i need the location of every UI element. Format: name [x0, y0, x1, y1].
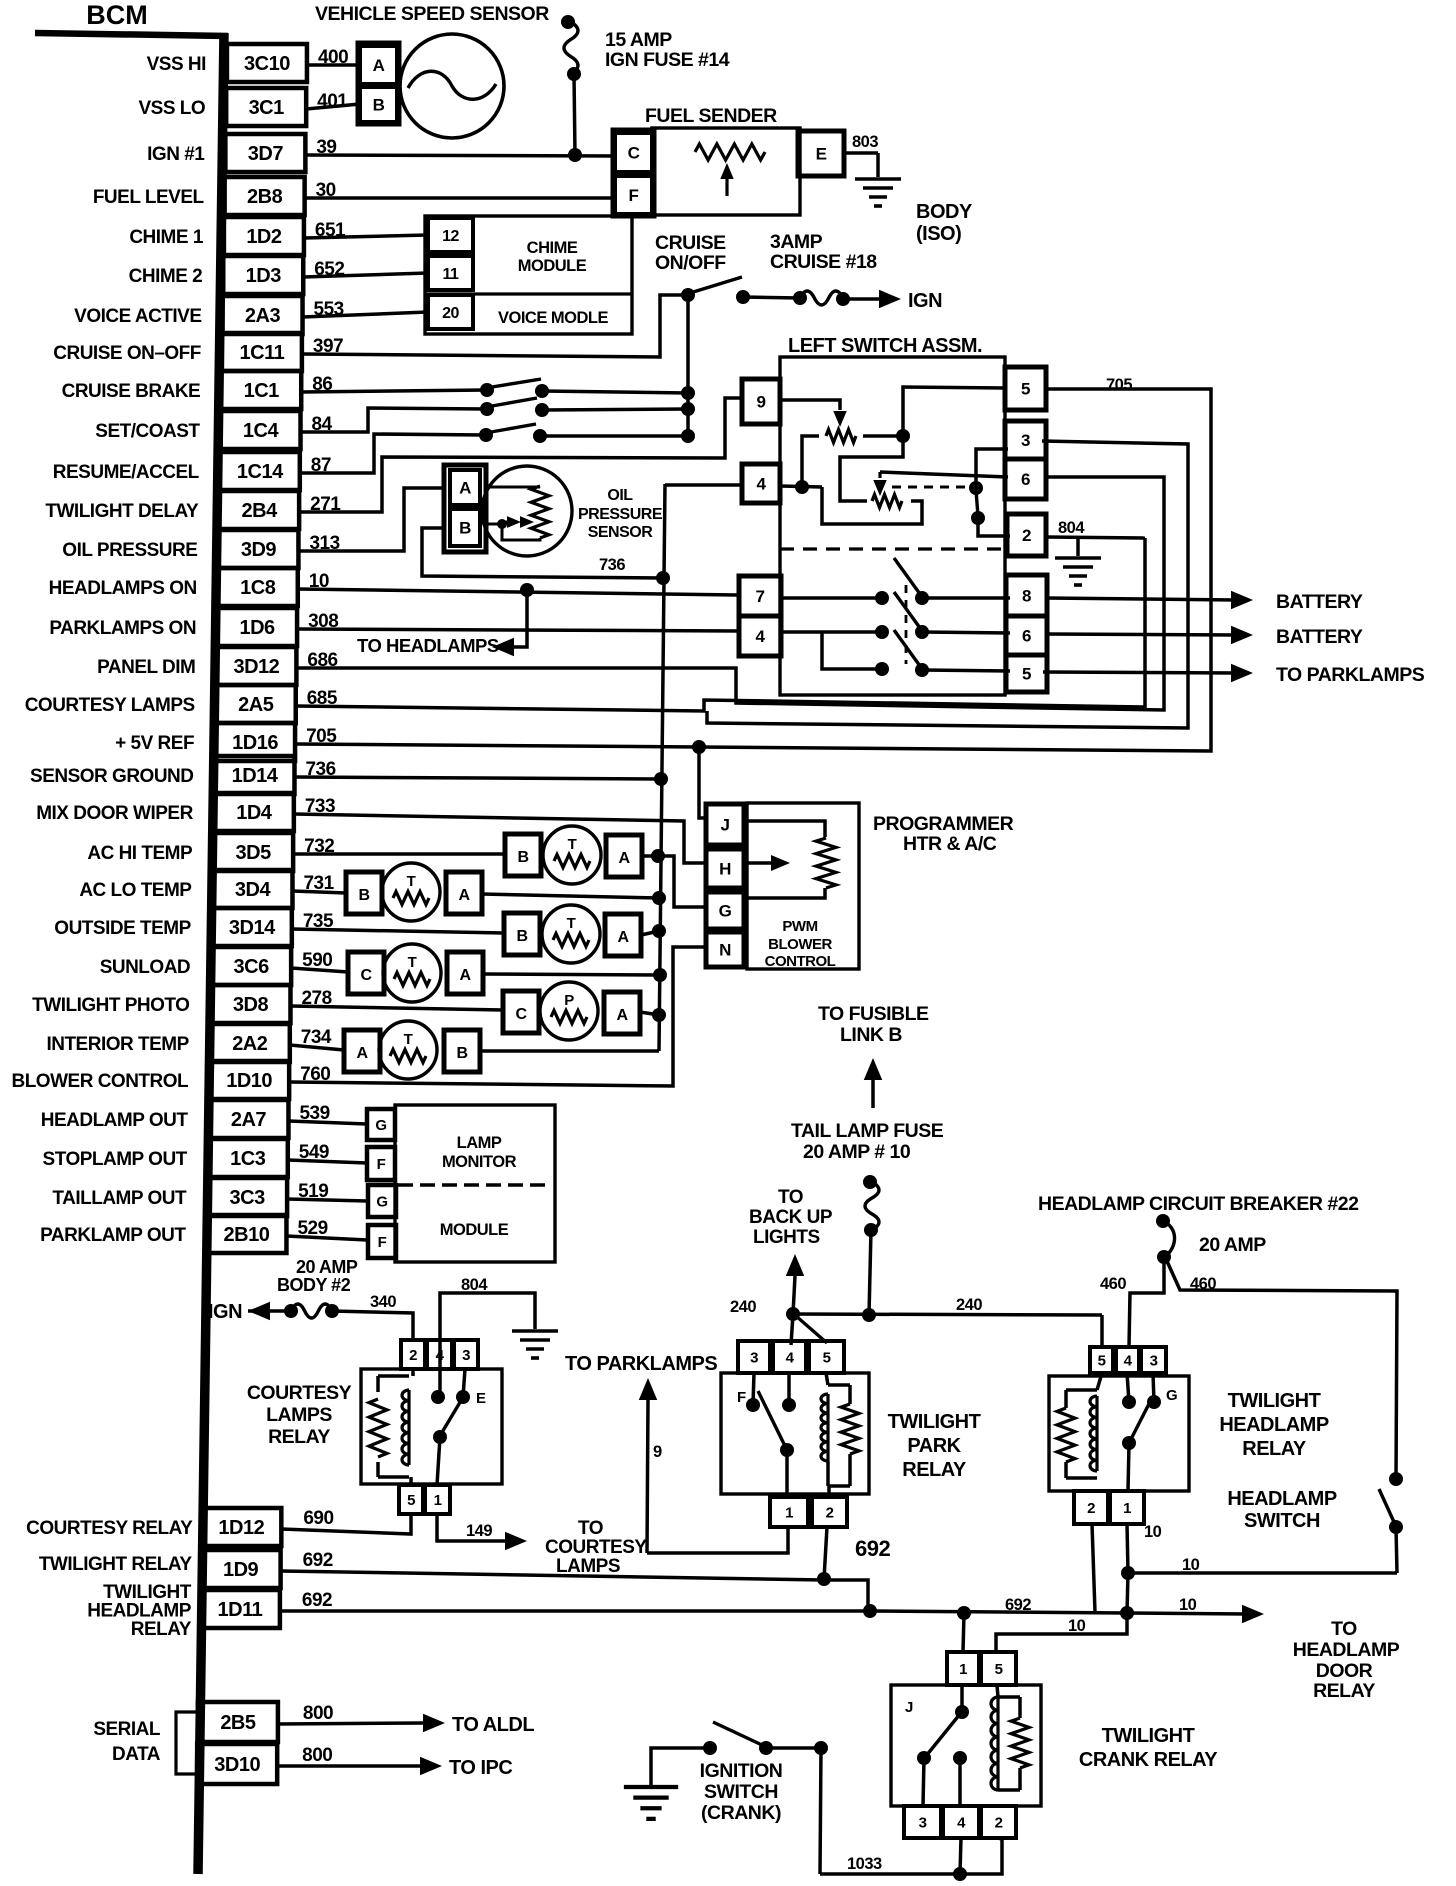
to park relay pin 1 — [647, 1527, 788, 1553]
outside temp sensor — [504, 913, 540, 955]
BCM pin 3D8 (TWILIGHT PHOTO) — [210, 985, 290, 1023]
svg-text:C: C — [515, 1006, 527, 1023]
BCM pin 3D9 (OIL PRESSURE) — [218, 530, 298, 568]
svg-text:J: J — [905, 1699, 913, 1716]
pin 4 internal line — [780, 486, 822, 487]
wire 39 — [305, 155, 617, 156]
svg-text:BODY #2: BODY #2 — [277, 1275, 351, 1295]
svg-text:1: 1 — [785, 1504, 793, 1521]
svg-text:INTERIOR TEMP: INTERIOR TEMP — [46, 1034, 189, 1055]
pin4 to contact — [780, 630, 882, 634]
svg-text:A: A — [458, 887, 470, 904]
svg-text:IGNITION: IGNITION — [700, 1760, 783, 1782]
svg-text:RELAY: RELAY — [1242, 1438, 1307, 1460]
svg-text:SET/COAST: SET/COAST — [95, 421, 200, 442]
wire 685 — [296, 538, 1145, 711]
svg-text:692: 692 — [855, 1536, 890, 1561]
240 to twilight headlamp relay pin 5 — [1100, 1315, 1104, 1347]
wire 800 to ALDL — [278, 1723, 425, 1724]
BCM pin 1D11 — [200, 1590, 280, 1628]
svg-text:800: 800 — [303, 1703, 333, 1724]
oil sensor B to 736 bus — [422, 528, 663, 578]
wire 86 + cruise brake switch — [301, 390, 487, 392]
pin F — [367, 1147, 395, 1180]
svg-text:3D14: 3D14 — [229, 917, 276, 939]
crank relay resistor — [1011, 1718, 1029, 1768]
oil pressure sensor pins A/B — [444, 465, 486, 552]
svg-text:T: T — [407, 873, 416, 890]
svg-text:CHIME 2: CHIME 2 — [129, 266, 203, 287]
svg-text:TO IPC: TO IPC — [449, 1757, 512, 1779]
wire 734 — [290, 1045, 344, 1050]
svg-text:VOICE MODLE: VOICE MODLE — [498, 309, 609, 327]
svg-text:803: 803 — [852, 133, 878, 151]
svg-text:1D2: 1D2 — [246, 226, 282, 248]
headlamp relay resistor — [1057, 1408, 1075, 1462]
pin G — [706, 892, 744, 929]
pin5 to coil — [997, 1685, 998, 1697]
pin 3 wire — [707, 441, 1188, 728]
svg-text:PARKLAMPS ON: PARKLAMPS ON — [49, 618, 196, 639]
svg-text:F: F — [629, 186, 639, 205]
svg-text:1: 1 — [1123, 1500, 1131, 1517]
BCM pin 1D9 — [201, 1550, 281, 1588]
AC HI temp sensor — [505, 834, 541, 876]
BCM pin 3D10 (serial data) — [197, 1744, 277, 1784]
to programmer G — [658, 856, 708, 907]
svg-text:10: 10 — [1182, 1556, 1200, 1574]
svg-text:F: F — [737, 1389, 746, 1406]
pin4 stem — [438, 1341, 442, 1397]
wire 735 — [292, 929, 504, 933]
svg-text:T: T — [568, 836, 577, 853]
svg-text:340: 340 — [370, 1293, 396, 1311]
wire 692 from 1D11 — [280, 1609, 870, 1613]
wiper to pin 6 — [880, 472, 1008, 477]
svg-text:CRUISE ON–OFF: CRUISE ON–OFF — [53, 343, 201, 364]
contact to pin3 — [923, 1758, 924, 1806]
svg-text:B: B — [358, 887, 369, 904]
svg-text:692: 692 — [302, 1590, 332, 1611]
svg-text:11: 11 — [443, 266, 460, 283]
pin H — [706, 849, 744, 888]
svg-text:IGN #1: IGN #1 — [147, 144, 205, 165]
svg-text:2: 2 — [826, 1504, 834, 1521]
wire 271 (twilight delay to pin 9) — [299, 398, 742, 512]
BCM pin 1C3 (STOPLAMP OUT) — [208, 1139, 288, 1177]
wire 308 (parklamps on) — [297, 629, 739, 631]
pot to pin 5 — [903, 387, 1005, 436]
svg-text:SENSOR GROUND: SENSOR GROUND — [30, 766, 193, 787]
svg-text:692: 692 — [303, 1550, 333, 1571]
wire 686 — [296, 477, 1164, 710]
svg-text:1D11: 1D11 — [218, 1599, 263, 1621]
svg-text:J: J — [721, 816, 730, 835]
svg-text:TWILIGHT PHOTO: TWILIGHT PHOTO — [32, 995, 189, 1016]
svg-text:ON/OFF: ON/OFF — [655, 252, 726, 274]
svg-text:PARK: PARK — [907, 1435, 961, 1457]
svg-text:A: A — [356, 1045, 368, 1062]
svg-text:HEADLAMP: HEADLAMP — [1293, 1639, 1400, 1661]
coil to pin5 — [409, 1477, 413, 1485]
pin4 stem — [1127, 1373, 1129, 1402]
svg-text:VOICE ACTIVE: VOICE ACTIVE — [74, 306, 201, 327]
pin N — [706, 932, 744, 967]
svg-text:3D5: 3D5 — [236, 842, 272, 864]
svg-text:2B8: 2B8 — [247, 186, 283, 208]
svg-text:TAILLAMP OUT: TAILLAMP OUT — [52, 1188, 187, 1209]
wire 690 — [281, 1514, 411, 1534]
svg-text:1C4: 1C4 — [243, 420, 280, 442]
BCM pin 1C14 (RESUME/ACCEL) — [220, 452, 300, 490]
programmer wiper arrow — [744, 861, 772, 865]
svg-text:1D9: 1D9 — [223, 1559, 259, 1581]
svg-text:10: 10 — [1068, 1617, 1086, 1635]
svg-text:BATTERY: BATTERY — [1276, 626, 1363, 648]
pin3 stem — [463, 1369, 465, 1397]
svg-text:IGN: IGN — [908, 290, 942, 312]
svg-text:AC HI TEMP: AC HI TEMP — [87, 843, 193, 864]
svg-text:DATA: DATA — [112, 1744, 161, 1765]
svg-text:A: A — [373, 56, 385, 75]
svg-text:PARKLAMP OUT: PARKLAMP OUT — [40, 1225, 186, 1246]
svg-text:3D10: 3D10 — [214, 1754, 260, 1776]
wire 736 — [294, 777, 661, 779]
wire 10 arrow line — [1127, 1613, 1247, 1614]
contact to pin6 — [922, 632, 1010, 633]
svg-text:SERIAL: SERIAL — [93, 1719, 161, 1740]
BCM pin 1C11 (CRUISE ON–OFF) — [222, 333, 302, 371]
svg-text:DOOR: DOOR — [1316, 1660, 1373, 1682]
wire 84 + set/coast switch — [301, 408, 487, 432]
10 down — [1127, 1573, 1128, 1613]
BCM pin 3C3 (TAILLAMP OUT) — [207, 1178, 287, 1216]
BCM pin 3D5 (AC HI TEMP) — [213, 833, 293, 871]
svg-text:HTR & A/C: HTR & A/C — [903, 833, 997, 855]
relay resistor — [376, 1376, 380, 1392]
svg-text:RELAY: RELAY — [1313, 1680, 1375, 1702]
courtesy lamps relay box — [361, 1369, 502, 1484]
svg-text:SUNLOAD: SUNLOAD — [100, 957, 190, 978]
svg-text:+ 5V REF: + 5V REF — [115, 733, 194, 754]
svg-text:1D3: 1D3 — [246, 265, 282, 287]
svg-text:B: B — [517, 849, 528, 866]
svg-text:3D9: 3D9 — [241, 539, 277, 561]
fuel sender wiper arrow — [725, 175, 728, 196]
705 branch to pin J — [699, 747, 708, 818]
BCM pin 3C10 (VSS HI) — [227, 44, 307, 82]
svg-text:705: 705 — [1106, 376, 1132, 394]
240 to park relay pin 4 — [791, 1314, 793, 1345]
svg-text:3C6: 3C6 — [234, 956, 270, 978]
oil sensor wiper — [486, 523, 502, 526]
svg-text:TWILIGHT RELAY: TWILIGHT RELAY — [39, 1554, 193, 1575]
svg-text:B: B — [456, 1045, 467, 1062]
svg-text:3C3: 3C3 — [230, 1187, 266, 1209]
fuel sender pins C/F — [613, 130, 654, 216]
BCM pin 2A7 (HEADLAMP OUT) — [208, 1100, 288, 1138]
svg-text:9: 9 — [757, 393, 766, 412]
pin J — [706, 804, 744, 845]
wire 10 from headlamp relay pin 1 — [1127, 1524, 1128, 1573]
twilight delay pot — [780, 400, 840, 410]
svg-text:B: B — [516, 928, 527, 945]
svg-text:CRUISE #18: CRUISE #18 — [770, 251, 877, 273]
svg-text:800: 800 — [302, 1745, 332, 1766]
relay contacts — [431, 1390, 445, 1404]
wire 240 — [786, 1307, 800, 1321]
pin3 stem — [1153, 1373, 1154, 1402]
svg-text:G: G — [719, 902, 732, 921]
svg-text:CHIME 1: CHIME 1 — [129, 227, 204, 248]
wire 804 to ground — [440, 1293, 535, 1341]
wire 803 — [844, 151, 878, 155]
svg-text:H: H — [719, 860, 731, 879]
svg-text:G: G — [375, 1117, 386, 1134]
dashed section divider — [780, 547, 1005, 550]
svg-text:1: 1 — [959, 1661, 967, 1678]
svg-text:5: 5 — [1021, 380, 1030, 399]
panel dimmer pot — [840, 436, 903, 501]
BCM pin 1D3 (CHIME 2) — [223, 256, 303, 294]
15 AMP IGN fuse #14 — [561, 15, 575, 29]
crank relay coil — [991, 1697, 998, 1790]
svg-text:VEHICLE SPEED SENSOR: VEHICLE SPEED SENSOR — [315, 3, 549, 25]
twilight crank relay pins 1,5 — [947, 1652, 979, 1685]
twilight park relay box — [721, 1373, 869, 1494]
svg-text:BLOWER CONTROL: BLOWER CONTROL — [11, 1071, 189, 1092]
junction 705/programmer — [692, 740, 706, 754]
svg-text:COURTESY LAMPS: COURTESY LAMPS — [25, 695, 195, 716]
BCM pin 1C1 (CRUISE BRAKE) — [221, 371, 301, 409]
BCM pin 1D6 (PARKLAMPS ON) — [217, 608, 297, 646]
svg-text:2: 2 — [409, 1347, 417, 1364]
svg-text:PANEL DIM: PANEL DIM — [97, 657, 195, 678]
park relay pin2 to 692 — [824, 1527, 827, 1579]
wire 400 — [307, 63, 360, 67]
svg-text:1C8: 1C8 — [240, 577, 276, 599]
pin F — [368, 1225, 396, 1258]
svg-text:TO: TO — [778, 1187, 803, 1208]
svg-text:8: 8 — [1022, 587, 1031, 606]
svg-text:COURTESY RELAY: COURTESY RELAY — [26, 1518, 193, 1539]
sunload sensor — [348, 952, 384, 994]
BCM pin 3D12 (PANEL DIM) — [216, 647, 296, 685]
svg-text:3C10: 3C10 — [244, 53, 290, 75]
svg-text:LAMPS: LAMPS — [266, 1404, 332, 1426]
svg-text:F: F — [377, 1156, 386, 1173]
svg-text:20: 20 — [442, 305, 459, 322]
svg-text:TO: TO — [1331, 1618, 1357, 1640]
svg-text:20 AMP # 10: 20 AMP # 10 — [803, 1141, 911, 1163]
svg-text:1D6: 1D6 — [239, 617, 275, 639]
wire 340 — [332, 1311, 413, 1341]
svg-text:10: 10 — [1179, 1596, 1197, 1614]
svg-text:MODULE: MODULE — [518, 257, 587, 275]
pin3 stem — [753, 1373, 754, 1405]
svg-text:TAIL LAMP FUSE: TAIL LAMP FUSE — [791, 1120, 944, 1142]
svg-text:A: A — [618, 850, 630, 867]
wire 30 — [305, 196, 617, 200]
svg-text:460: 460 — [1100, 1275, 1126, 1293]
svg-text:N: N — [719, 941, 731, 960]
svg-text:4: 4 — [756, 627, 766, 646]
svg-text:5: 5 — [1022, 665, 1031, 684]
svg-text:TO PARKLAMPS: TO PARKLAMPS — [1276, 664, 1425, 686]
BCM pin 2B4 (TWILIGHT DELAY) — [219, 491, 299, 529]
BCM pin 3D7 (IGN #1) — [225, 134, 305, 172]
svg-text:CRUISE: CRUISE — [655, 232, 726, 254]
svg-text:149: 149 — [466, 1522, 492, 1540]
wire 553 — [303, 312, 428, 317]
svg-text:20 AMP: 20 AMP — [296, 1257, 358, 1277]
tail lamp fuse 20A #10 — [863, 1175, 877, 1189]
svg-text:A: A — [459, 967, 471, 984]
svg-text:PWM: PWM — [782, 918, 817, 935]
svg-text:BCM: BCM — [86, 0, 148, 30]
svg-text:HEADLAMPS ON: HEADLAMPS ON — [49, 578, 197, 599]
svg-text:1D14: 1D14 — [232, 765, 279, 787]
wire 539 — [288, 1121, 367, 1124]
svg-text:HEADLAMP: HEADLAMP — [1227, 1488, 1336, 1510]
pin 4 left — [742, 464, 780, 503]
svg-text:736: 736 — [599, 556, 625, 574]
headlamp relay coil — [1090, 1396, 1097, 1471]
pin1 stem — [960, 1685, 964, 1712]
wire 732 — [293, 852, 505, 856]
wire 460 left branch — [1129, 1257, 1164, 1347]
svg-text:OUTSIDE TEMP: OUTSIDE TEMP — [54, 918, 191, 939]
svg-text:MIX DOOR WIPER: MIX DOOR WIPER — [36, 803, 193, 824]
arrow to IGN — [879, 290, 901, 308]
sensor to bus — [483, 974, 660, 975]
cruise on/off switch — [681, 288, 695, 302]
svg-text:HEADLAMP: HEADLAMP — [1219, 1414, 1328, 1436]
svg-text:2B5: 2B5 — [220, 1712, 256, 1734]
wire 10 to headlamp switch — [1128, 1571, 1397, 1575]
svg-text:RELAY: RELAY — [902, 1459, 967, 1481]
10 branch to crank relay pin 5 — [996, 1613, 1127, 1652]
svg-text:240: 240 — [956, 1296, 982, 1314]
oil pressure sensor — [482, 466, 572, 556]
svg-text:5: 5 — [407, 1492, 415, 1509]
svg-text:2B10: 2B10 — [224, 1224, 270, 1246]
svg-text:TO HEADLAMPS: TO HEADLAMPS — [357, 635, 499, 656]
sensor to bus — [642, 854, 658, 858]
arrow to IGN — [248, 1302, 270, 1320]
svg-text:1033: 1033 — [847, 1855, 882, 1873]
svg-text:TWILIGHT: TWILIGHT — [888, 1411, 981, 1433]
pin4 stem — [787, 1373, 791, 1405]
BCM pin 1D2 (CHIME 1) — [224, 217, 304, 255]
svg-text:PROGRAMMER: PROGRAMMER — [873, 813, 1014, 835]
wire 278 — [290, 1006, 503, 1010]
svg-text:TO ALDL: TO ALDL — [452, 1714, 534, 1736]
BCM pin 3D14 (OUTSIDE TEMP) — [212, 908, 292, 946]
svg-text:1D10: 1D10 — [226, 1070, 272, 1092]
svg-text:1C1: 1C1 — [244, 380, 280, 402]
arm to pin1 — [785, 1450, 789, 1497]
svg-text:C: C — [360, 967, 372, 984]
cruise switch bus — [686, 295, 690, 436]
svg-text:VSS LO: VSS LO — [138, 98, 205, 119]
svg-text:6: 6 — [1022, 627, 1031, 646]
svg-text:B: B — [373, 96, 385, 115]
mechanical link (dashed) — [892, 486, 967, 489]
svg-text:SENSOR: SENSOR — [588, 524, 654, 541]
svg-text:2A5: 2A5 — [238, 694, 274, 716]
svg-text:OIL PRESSURE: OIL PRESSURE — [62, 540, 197, 561]
BCM pin 2A5 (COURTESY LAMPS) — [216, 685, 296, 723]
svg-text:A: A — [617, 929, 629, 946]
svg-text:IGN: IGN — [208, 1301, 242, 1323]
svg-text:CHIME: CHIME — [527, 239, 578, 257]
right pins 8,6,5 — [1006, 575, 1047, 616]
svg-text:3AMP: 3AMP — [770, 231, 823, 253]
pin5 to coil — [1097, 1373, 1102, 1390]
svg-text:4: 4 — [786, 1349, 795, 1366]
BCM module boundary line — [35, 33, 228, 36]
BCM pin 2B10 (PARKLAMP OUT) — [206, 1215, 286, 1253]
svg-text:G: G — [376, 1193, 387, 1210]
svg-text:COURTESY: COURTESY — [247, 1382, 352, 1404]
svg-text:COURTESY: COURTESY — [545, 1537, 647, 1558]
junction 736 bus — [656, 571, 670, 585]
wire 313 — [298, 488, 446, 551]
svg-text:BACK UP: BACK UP — [749, 1207, 833, 1228]
BCM pin 3C6 (SUNLOAD) — [211, 947, 291, 985]
svg-text:2A7: 2A7 — [231, 1109, 267, 1131]
svg-text:3: 3 — [919, 1814, 927, 1831]
svg-text:5: 5 — [995, 1661, 1003, 1678]
wire 87 + resume/accel switch — [300, 434, 486, 473]
svg-text:T: T — [408, 954, 417, 971]
vehicle speed sensor symbol — [400, 34, 504, 138]
svg-text:E: E — [476, 1390, 486, 1407]
fuel sender resistor — [695, 144, 765, 160]
wire 731 — [292, 891, 346, 893]
svg-text:5: 5 — [1098, 1352, 1106, 1369]
svg-text:T: T — [404, 1031, 413, 1048]
svg-text:RELAY: RELAY — [131, 1619, 192, 1640]
svg-text:A: A — [459, 479, 471, 498]
wire 519 — [287, 1199, 367, 1201]
svg-text:OIL: OIL — [607, 487, 633, 504]
svg-text:MODULE: MODULE — [440, 1221, 509, 1239]
svg-text:2: 2 — [1087, 1500, 1095, 1517]
svg-text:P: P — [564, 992, 574, 1009]
switch to 1033 — [820, 1748, 821, 1874]
sensor to bus end — [480, 1049, 659, 1053]
svg-text:STOPLAMP OUT: STOPLAMP OUT — [43, 1149, 188, 1170]
oil sensor resistor — [531, 486, 549, 538]
wire 397 — [302, 295, 688, 357]
svg-text:CRUISE BRAKE: CRUISE BRAKE — [62, 381, 201, 402]
svg-text:TO PARKLAMPS: TO PARKLAMPS — [565, 1353, 717, 1375]
BCM pin 1D10 (BLOWER CONTROL) — [209, 1061, 289, 1099]
wire 651 — [304, 235, 428, 238]
svg-text:804: 804 — [1058, 519, 1085, 537]
svg-text:9: 9 — [653, 1443, 662, 1461]
svg-text:T: T — [567, 915, 576, 932]
svg-text:BODY: BODY — [916, 201, 973, 223]
BCM pin 1D16 (+ 5V REF) — [215, 723, 295, 761]
svg-text:20 AMP: 20 AMP — [1199, 1234, 1266, 1256]
svg-text:3D12: 3D12 — [233, 656, 279, 678]
twilight headlamp relay box — [1049, 1376, 1189, 1491]
pin 4 to sensor ground bus — [665, 483, 742, 487]
svg-text:690: 690 — [303, 1508, 333, 1529]
